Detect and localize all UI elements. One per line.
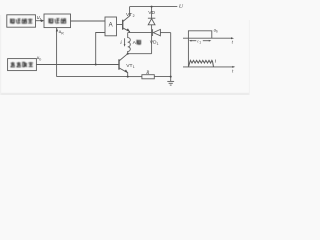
wire feedback bottom horizontal (57, 76, 128, 78)
waveform pulse ub (188, 31, 211, 38)
svg-text:1: 1 (157, 42, 159, 46)
block 恒流给定 (constant-current reference) (7, 15, 36, 27)
wire box1 to comparator (36, 20, 42, 22)
svg-text:1: 1 (40, 17, 42, 21)
arrowhead dim left (189, 40, 192, 42)
svg-text:2: 2 (133, 14, 135, 18)
svg-text:b: b (216, 29, 218, 33)
svg-text:1: 1 (133, 65, 135, 69)
junction pulse-line / A-box riser (95, 64, 97, 66)
wire feedback uR vertical (56, 28, 58, 77)
current arrow i (124, 38, 126, 45)
junction ground node (170, 76, 172, 78)
svg-text:R: R (145, 71, 149, 76)
junction VT1 collector / winding bottom (127, 53, 129, 55)
fake hanzi 比较器 (49, 18, 66, 23)
wire VT1 collector to VD anode (128, 53, 152, 55)
ground (170, 77, 172, 82)
junction VT1 emitter / sense wire (127, 76, 129, 78)
wire A to VT2 base (117, 24, 123, 26)
wire +U top rail (130, 6, 178, 8)
diode VD (151, 7, 153, 19)
diode VD1 (152, 29, 154, 36)
fake hanzi 走步脉冲 (11, 62, 33, 67)
arrowhead VT1 emitter (124, 70, 128, 73)
svg-text:VT: VT (126, 63, 132, 69)
svg-text:A: A (109, 23, 113, 29)
arrowhead feedback into comparator bottom (56, 28, 58, 31)
arrowhead dim right (209, 40, 212, 42)
svg-text:VD: VD (148, 10, 155, 16)
arrowhead current i down (124, 44, 126, 47)
wire VT2 emitter riser to node M (129, 31, 131, 33)
waveform current ripple (189, 60, 214, 66)
wire riser pulse line to A box (96, 33, 105, 65)
amplifier A box (105, 17, 117, 36)
svg-text:1: 1 (199, 41, 201, 45)
block 走步脉冲 (step pulse) (8, 59, 37, 71)
junction +U rail / VD cathode (151, 6, 153, 8)
wire step pulse to VT1 base (36, 64, 119, 66)
block 比较器 (comparator) (44, 14, 71, 28)
text labels (37, 4, 234, 76)
faint page edge (0, 93, 250, 95)
svg-text:b: b (39, 57, 41, 61)
waveform axis t top (183, 37, 231, 39)
resistor R (142, 75, 154, 79)
wire VT2 collector riser (129, 7, 131, 17)
arrowhead into comparator (41, 19, 44, 22)
arrowhead VT2 emitter (126, 28, 130, 31)
inductor A-phase winding (128, 33, 131, 54)
wire node M rail (128, 32, 153, 34)
fake hanzi 恒流给定 (11, 19, 33, 24)
wire VT1 emitter riser (127, 72, 129, 76)
transistor VT1 (118, 59, 120, 69)
wire comparator to A (71, 20, 106, 22)
transistor VT2 (122, 20, 124, 30)
wire emitter node to R and R to ground node (128, 76, 142, 78)
arrowhead axis t top (231, 37, 234, 39)
waveform vertical axis (187, 30, 189, 67)
waveform axis t bottom (183, 66, 232, 68)
arrowhead axis t bottom (232, 66, 235, 68)
svg-text:VT: VT (126, 12, 132, 18)
dimension t1 lines (190, 40, 196, 42)
wire VD1 right drop to ground (170, 33, 172, 77)
